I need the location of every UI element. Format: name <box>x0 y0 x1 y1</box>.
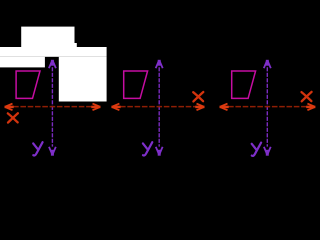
x-axis right arrowhead <box>195 104 204 111</box>
trapezoid (panel 1) <box>16 71 40 98</box>
x-axis left arrowhead <box>220 104 229 111</box>
trapezoid (panel 3) <box>232 71 256 98</box>
x-axis dashed line (panel 2) <box>120 106 196 108</box>
x-axis right arrowhead <box>91 104 100 111</box>
trapezoid (panel 2) <box>124 71 148 98</box>
label x (panel 1) <box>8 113 18 122</box>
x-axis dashed line (panel 1) <box>13 106 92 108</box>
y-axis top arrowhead <box>264 60 271 68</box>
label y (panel 3) <box>252 143 261 156</box>
x-axis dashed line (panel 3) <box>228 106 307 108</box>
x-axis left arrowhead <box>5 104 14 111</box>
y-axis dashed stem (panel 2) <box>158 67 160 146</box>
y-axis bottom arrowhead <box>264 147 271 156</box>
label y (panel 1) <box>33 142 42 155</box>
y-axis bottom arrowhead <box>156 147 163 156</box>
white eraser blob rect C (wide band) <box>0 47 107 57</box>
white eraser blob rect E (right column) <box>59 57 107 102</box>
label y (panel 2) <box>143 142 152 155</box>
black background <box>0 0 320 170</box>
label x (panel 3) <box>302 92 312 101</box>
white eraser blob rect B <box>21 43 77 47</box>
x-axis right arrowhead <box>306 104 315 111</box>
y-axis dashed stem (panel 3) <box>266 67 268 146</box>
label x (panel 2) <box>193 92 203 101</box>
y-axis top arrowhead <box>156 60 163 68</box>
y-axis top arrowhead <box>49 60 56 68</box>
white eraser blob rect D (left piece) <box>0 57 45 68</box>
y-axis bottom arrowhead <box>49 147 56 156</box>
white eraser blob rect A <box>21 27 74 43</box>
y-axis dashed stem (panel 1) <box>51 67 53 146</box>
x-axis left arrowhead <box>111 104 120 111</box>
